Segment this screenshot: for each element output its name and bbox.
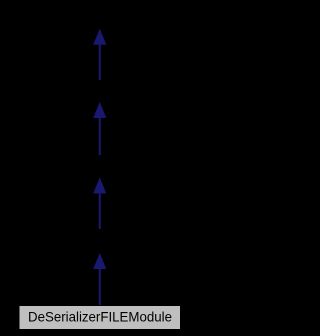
inheritance arrow 4 (bottom) — [94, 254, 106, 305]
inheritance arrow 3 — [94, 179, 106, 229]
inheritance arrow 2 — [94, 103, 106, 155]
inheritance arrow 1 (top) — [94, 30, 106, 80]
svg-text:DeSerializerFILEModule: DeSerializerFILEModule — [28, 309, 172, 325]
class box DeSerializerFILEModule — [19, 306, 181, 330]
